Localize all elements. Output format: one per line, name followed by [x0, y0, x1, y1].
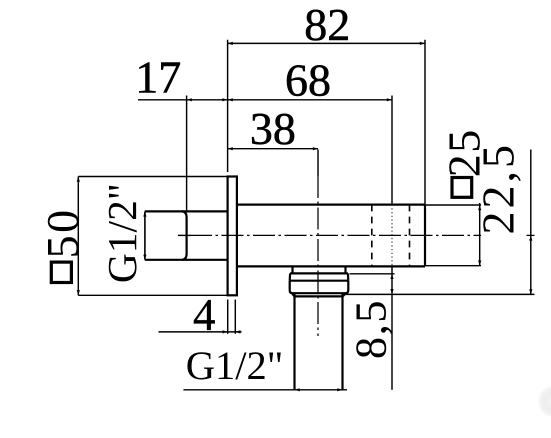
- svg-text:8,5: 8,5: [346, 299, 396, 359]
- svg-text:68: 68: [285, 55, 331, 106]
- svg-text:22,5: 22,5: [473, 142, 524, 235]
- svg-text:50: 50: [37, 207, 88, 258]
- svg-text:G1/2": G1/2": [186, 343, 284, 388]
- svg-text:38: 38: [250, 103, 296, 154]
- svg-text:4: 4: [193, 290, 216, 340]
- svg-text:17: 17: [135, 51, 181, 102]
- svg-text:82: 82: [304, 0, 350, 50]
- svg-text:G1/2": G1/2": [99, 183, 145, 283]
